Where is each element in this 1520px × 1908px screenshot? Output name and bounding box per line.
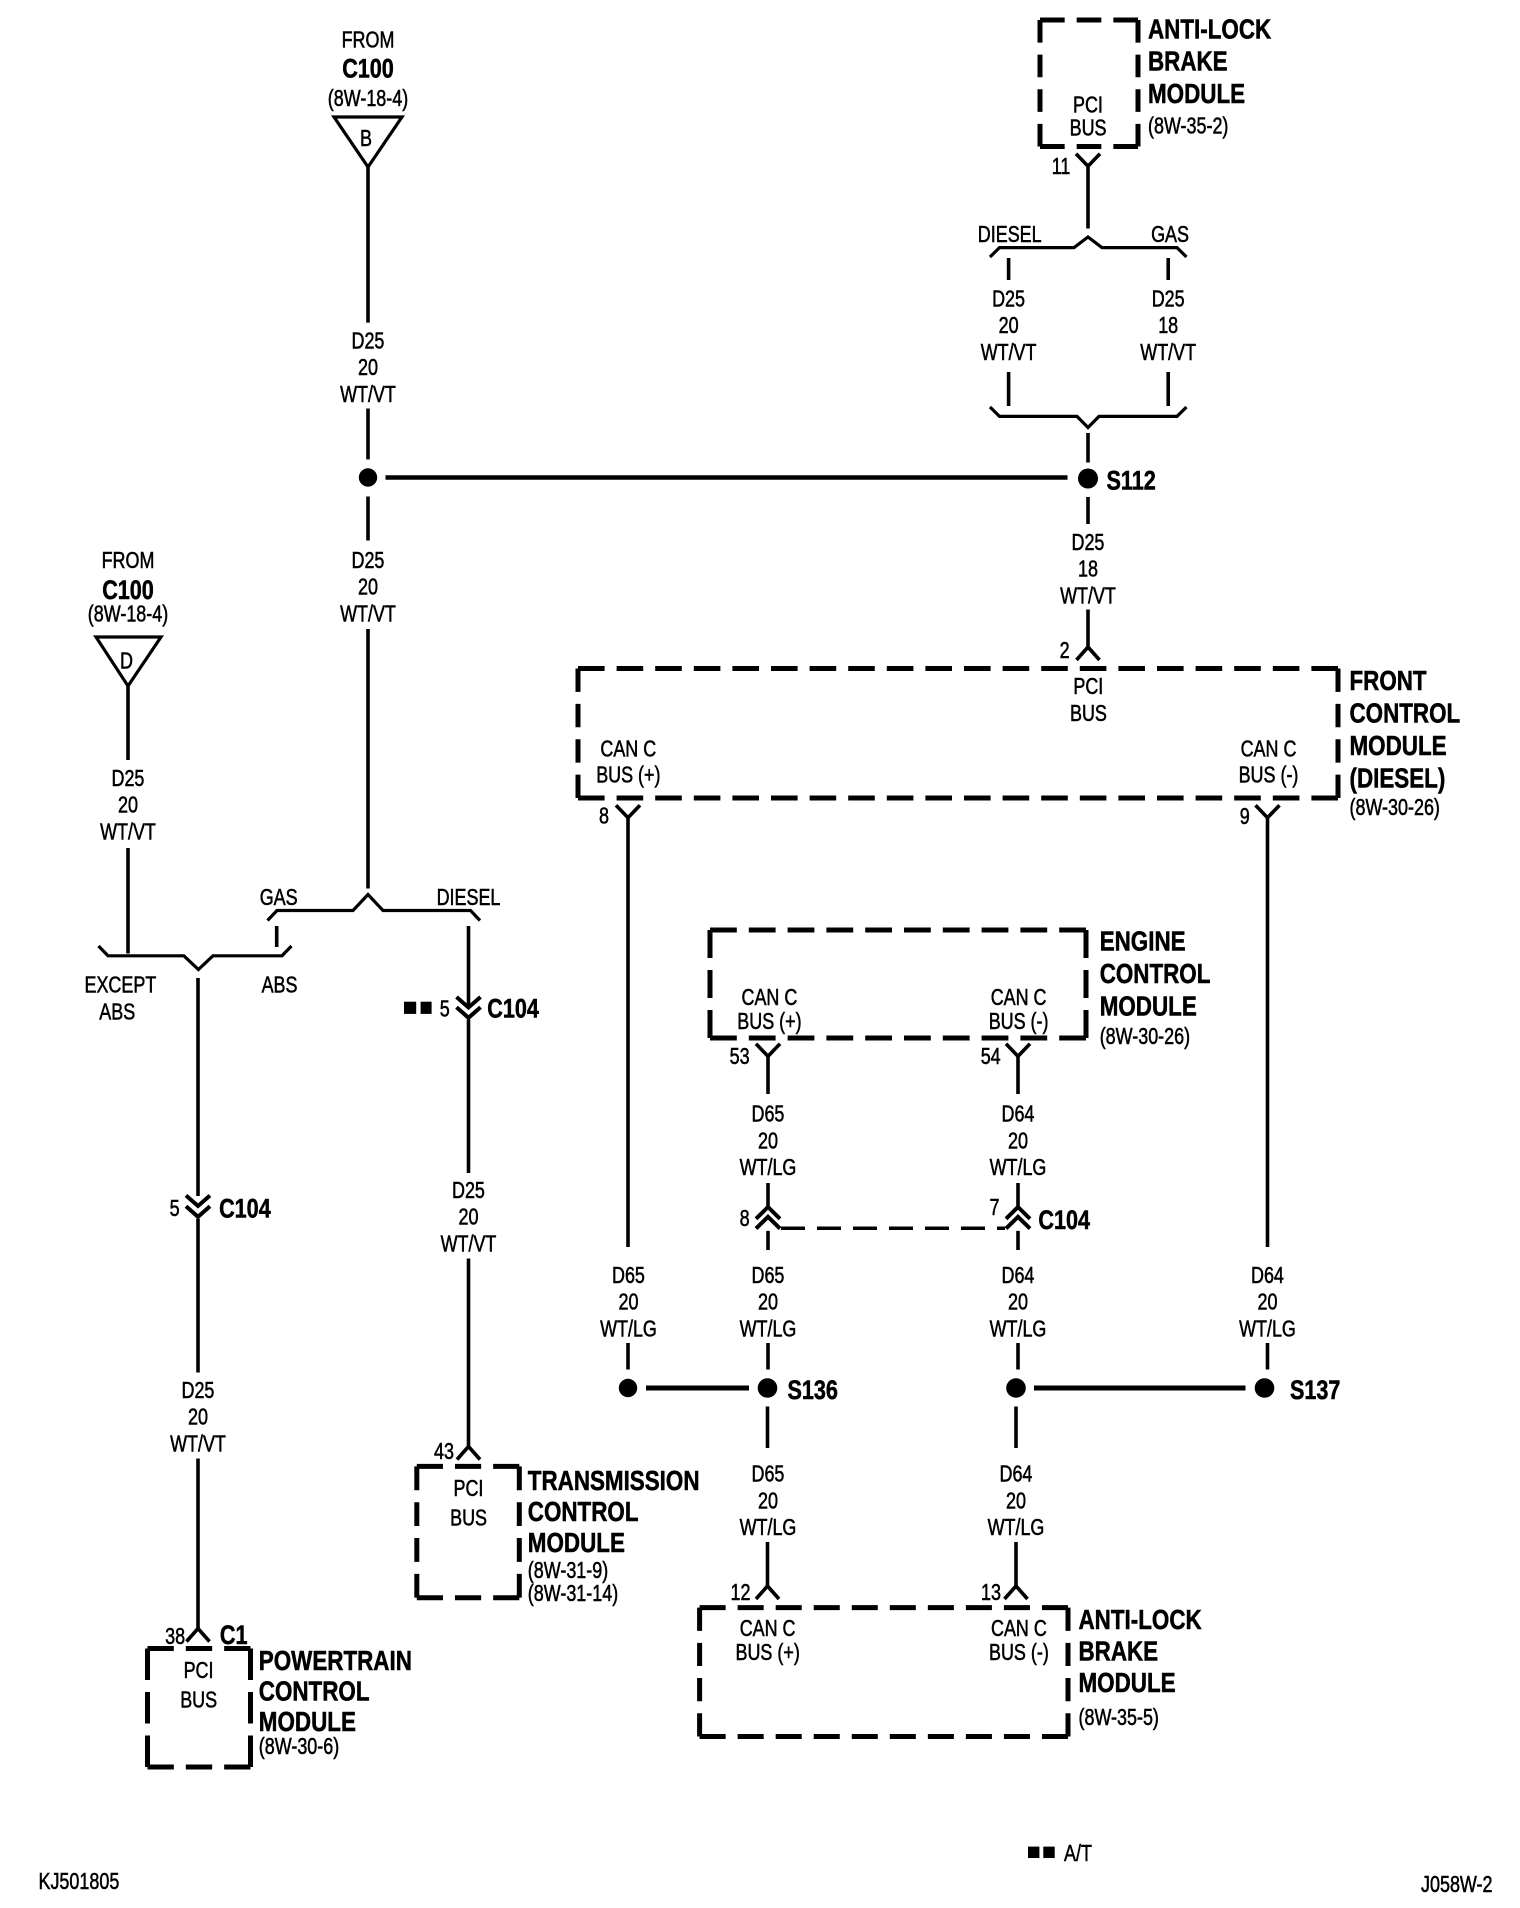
splice S136: [619, 1375, 838, 1405]
svg-text:D25: D25: [1152, 286, 1185, 312]
pin 43 of TCM: [434, 1438, 480, 1464]
svg-text:D25: D25: [112, 765, 145, 791]
svg-text:BUS (+): BUS (+): [737, 1008, 801, 1034]
wire: [766, 1343, 770, 1370]
svg-text:20: 20: [619, 1289, 639, 1315]
sheet id J058W-2: [1421, 1871, 1493, 1897]
merge brace into S112: [990, 407, 1187, 428]
svg-text:CONTROL: CONTROL: [1100, 958, 1211, 989]
svg-text:20: 20: [1008, 1289, 1028, 1315]
svg-text:13: 13: [981, 1579, 1001, 1605]
svg-text:20: 20: [758, 1487, 778, 1513]
wire: [766, 1183, 770, 1207]
svg-text:CONTROL: CONTROL: [1350, 698, 1461, 729]
svg-text:ANTI-LOCK: ANTI-LOCK: [1148, 14, 1271, 45]
svg-text:20: 20: [1258, 1289, 1278, 1315]
svg-text:BUS: BUS: [180, 1687, 217, 1713]
connector C100 reference triangle B (from 8W-18-4): [328, 27, 408, 168]
svg-text:C1: C1: [220, 1620, 248, 1650]
svg-text:(8W-35-5): (8W-35-5): [1079, 1704, 1159, 1730]
svg-text:MODULE: MODULE: [1079, 1667, 1176, 1698]
svg-text:CONTROL: CONTROL: [259, 1676, 370, 1707]
svg-text:18: 18: [1078, 556, 1098, 582]
wire: [1007, 372, 1011, 406]
branch label DIESEL: [437, 884, 501, 910]
svg-text:DIESEL: DIESEL: [978, 221, 1042, 247]
svg-text:20: 20: [1006, 1487, 1026, 1513]
svg-text:D64: D64: [1251, 1262, 1284, 1288]
svg-text:WT/VT: WT/VT: [1140, 339, 1196, 365]
svg-text:BRAKE: BRAKE: [1079, 1636, 1159, 1667]
svg-text:20: 20: [999, 312, 1019, 338]
svg-text:MODULE: MODULE: [1350, 730, 1447, 761]
svg-text:C100: C100: [342, 54, 394, 84]
svg-text:S112: S112: [1107, 466, 1156, 496]
svg-text:FROM: FROM: [102, 547, 155, 573]
svg-text:CAN C: CAN C: [991, 984, 1047, 1010]
splice S137: [1006, 1375, 1340, 1405]
wire: [196, 1219, 200, 1373]
legend A/T marker: [1028, 1840, 1092, 1866]
wire below S137: [1014, 1407, 1018, 1449]
svg-text:POWERTRAIN: POWERTRAIN: [259, 1645, 412, 1676]
svg-text:S137: S137: [1290, 1375, 1340, 1405]
svg-text:20: 20: [188, 1404, 208, 1430]
svg-text:D25: D25: [452, 1177, 485, 1203]
label D25 20 WT/VT (B column lower): [340, 547, 396, 626]
svg-text:J058W-2: J058W-2: [1421, 1871, 1493, 1897]
module TRANSMISSION CONTROL MODULE: [417, 1465, 700, 1606]
svg-text:MODULE: MODULE: [1148, 78, 1245, 109]
svg-text:WT/LG: WT/LG: [990, 1154, 1047, 1180]
svg-text:11: 11: [1052, 153, 1071, 179]
svg-text:C104: C104: [1038, 1205, 1090, 1235]
svg-text:WT/LG: WT/LG: [740, 1154, 797, 1180]
wire: [1166, 372, 1170, 406]
svg-text:D64: D64: [1002, 1262, 1035, 1288]
label D65 20 WT/LG (above S136): [740, 1262, 797, 1341]
svg-text:43: 43: [434, 1438, 454, 1464]
svg-text:D64: D64: [1002, 1101, 1035, 1127]
svg-text:WT/VT: WT/VT: [170, 1430, 226, 1456]
pin 13 of ABM (bottom): [981, 1579, 1028, 1605]
svg-text:D25: D25: [992, 286, 1025, 312]
wire junction-to-S112 horizontal: [386, 475, 1068, 480]
svg-text:5: 5: [170, 1195, 180, 1221]
sheet id KJ501805: [39, 1868, 120, 1894]
svg-text:WT/VT: WT/VT: [340, 600, 396, 626]
svg-text:5: 5: [440, 995, 450, 1021]
wire: [366, 409, 370, 460]
svg-text:(8W-30-26): (8W-30-26): [1100, 1023, 1190, 1049]
svg-text:(DIESEL): (DIESEL): [1350, 763, 1446, 794]
svg-text:KJ501805: KJ501805: [39, 1868, 120, 1894]
branch label EXCEPT ABS: [85, 972, 157, 1025]
svg-text:DIESEL: DIESEL: [437, 884, 501, 910]
split brace GAS/DIESEL: [268, 895, 481, 921]
label D25 20 WT/VT (D column): [100, 765, 156, 844]
module ENGINE CONTROL MODULE: [710, 926, 1210, 1050]
dashed A/T link between C104 pins: [781, 1227, 1005, 1231]
svg-text:ABS: ABS: [262, 972, 298, 998]
svg-text:20: 20: [358, 354, 378, 380]
wire to FCM pin 2: [1086, 610, 1090, 648]
svg-text:(8W-18-4): (8W-18-4): [88, 601, 168, 627]
svg-text:BUS (-): BUS (-): [989, 1639, 1049, 1665]
svg-text:CAN C: CAN C: [742, 984, 798, 1010]
svg-text:CAN C: CAN C: [1241, 736, 1297, 762]
label D64 20 WT/LG (below S137): [988, 1461, 1045, 1540]
svg-text:CONTROL: CONTROL: [528, 1496, 639, 1527]
wire to TCM pin 43: [467, 1259, 471, 1447]
wire: [1086, 433, 1090, 463]
svg-text:20: 20: [1008, 1127, 1028, 1153]
svg-text:WT/LG: WT/LG: [988, 1514, 1045, 1540]
wire down to GAS/DIESEL split: [366, 629, 370, 889]
svg-text:8: 8: [599, 803, 609, 829]
label D64 20 WT/LG (FCM pin9 column): [1239, 1262, 1296, 1341]
svg-text:WT/VT: WT/VT: [340, 381, 396, 407]
svg-text:CAN C: CAN C: [600, 736, 656, 762]
svg-text:ENGINE: ENGINE: [1100, 926, 1186, 957]
svg-text:BUS (-): BUS (-): [1239, 761, 1299, 787]
pin 2 of FCM: [1060, 637, 1100, 663]
svg-text:D25: D25: [352, 328, 385, 354]
svg-text:A/T: A/T: [1064, 1840, 1092, 1866]
svg-text:BRAKE: BRAKE: [1148, 46, 1228, 77]
svg-text:MODULE: MODULE: [1100, 991, 1197, 1022]
wire: [366, 497, 370, 541]
svg-text:(8W-31-14): (8W-31-14): [528, 1580, 618, 1606]
module ANTI-LOCK BRAKE MODULE (bottom): [700, 1604, 1202, 1737]
connector C100 reference triangle D (from 8W-18-4): [88, 547, 168, 686]
wire below S136: [766, 1407, 770, 1449]
junction dot B column: [359, 468, 377, 486]
wire merge to C104: [196, 978, 200, 1196]
module POWERTRAIN CONTROL MODULE: [148, 1645, 412, 1767]
wire to ABM pin 12: [766, 1542, 770, 1586]
svg-text:D65: D65: [752, 1262, 785, 1288]
svg-text:EXCEPT: EXCEPT: [85, 972, 157, 998]
splice S112: [1078, 466, 1156, 496]
svg-text:WT/VT: WT/VT: [100, 818, 156, 844]
svg-text:8: 8: [740, 1205, 750, 1231]
wire to PCM pin 38: [196, 1459, 200, 1629]
wire: [126, 848, 130, 954]
svg-text:54: 54: [981, 1043, 1001, 1069]
label D25 18 WT/VT (top gas branch): [1140, 286, 1196, 365]
svg-text:7: 7: [990, 1194, 1000, 1220]
svg-text:53: 53: [730, 1043, 750, 1069]
label D64 20 WT/LG (above S137): [990, 1262, 1047, 1341]
wire D25 from triangle B down: [366, 167, 370, 323]
svg-text:WT/VT: WT/VT: [441, 1230, 497, 1256]
svg-text:WT/VT: WT/VT: [981, 339, 1037, 365]
pin 8 of FCM: [599, 803, 640, 829]
wire pin11 down: [1086, 166, 1090, 228]
connector C104 pin 8: [740, 1205, 780, 1231]
svg-text:FROM: FROM: [342, 27, 395, 53]
svg-text:(8W-35-2): (8W-35-2): [1148, 113, 1228, 139]
svg-text:PCI: PCI: [454, 1475, 484, 1501]
svg-text:20: 20: [758, 1127, 778, 1153]
wire: [766, 1056, 770, 1094]
module ANTI-LOCK BRAKE MODULE (top): [1040, 14, 1271, 147]
label D64 20 WT/LG (pin54): [990, 1101, 1047, 1180]
wire FCM pin8 down: [626, 818, 630, 1247]
wire: [1016, 1183, 1020, 1207]
svg-text:D64: D64: [1000, 1461, 1033, 1487]
svg-text:MODULE: MODULE: [528, 1527, 625, 1558]
svg-text:(8W-30-26): (8W-30-26): [1350, 794, 1440, 820]
svg-text:BUS: BUS: [450, 1505, 487, 1531]
svg-text:18: 18: [1158, 312, 1178, 338]
svg-text:20: 20: [118, 792, 138, 818]
label D25 20 WT/VT (TCM column): [441, 1177, 497, 1256]
svg-text:GAS: GAS: [1151, 221, 1189, 247]
wire: [626, 1343, 630, 1370]
pin 11 of ABM: [1052, 153, 1100, 179]
wire GAS stub: [275, 926, 279, 947]
svg-text:WT/LG: WT/LG: [740, 1514, 797, 1540]
label D25 20 WT/VT (top diesel branch): [981, 286, 1037, 365]
svg-text:D65: D65: [752, 1461, 785, 1487]
svg-text:WT/VT: WT/VT: [1060, 582, 1116, 608]
pin 9 of FCM: [1240, 803, 1280, 829]
pin 38 / C1 of PCM: [165, 1620, 247, 1650]
wire DIESEL stub: [467, 926, 471, 1007]
svg-text:C104: C104: [487, 994, 539, 1024]
pin 12 of ABM (bottom): [731, 1579, 780, 1605]
svg-text:CAN C: CAN C: [740, 1615, 796, 1641]
wire: [1016, 1231, 1020, 1250]
connector C104 pin 7: [990, 1194, 1091, 1235]
svg-text:C104: C104: [219, 1194, 271, 1224]
svg-text:20: 20: [459, 1204, 479, 1230]
merge brace EXCEPT-ABS/ABS: [99, 946, 292, 970]
svg-text:TRANSMISSION: TRANSMISSION: [528, 1465, 700, 1496]
svg-text:38: 38: [165, 1623, 185, 1649]
svg-text:20: 20: [358, 574, 378, 600]
svg-text:D65: D65: [752, 1101, 785, 1127]
branch label ABS: [262, 972, 298, 998]
label D25 18 WT/VT (S112 column): [1060, 529, 1116, 608]
svg-text:B: B: [360, 125, 372, 151]
svg-text:20: 20: [758, 1289, 778, 1315]
wire below S112: [1086, 497, 1090, 524]
svg-text:D25: D25: [182, 1377, 215, 1403]
svg-text:GAS: GAS: [260, 884, 298, 910]
wire: [1016, 1056, 1020, 1094]
svg-text:BUS: BUS: [1070, 115, 1107, 141]
connector C104 pin 5 (diesel column) with A/T marker: [404, 994, 539, 1024]
wire: [467, 1020, 471, 1174]
label D65 20 WT/LG (FCM pin8 column): [600, 1262, 657, 1341]
svg-text:CAN C: CAN C: [991, 1615, 1047, 1641]
module FRONT CONTROL MODULE (DIESEL): [578, 665, 1460, 820]
svg-text:9: 9: [1240, 803, 1250, 829]
wire: [1016, 1343, 1020, 1370]
branch label GAS (top): [1151, 221, 1189, 247]
svg-text:D65: D65: [612, 1262, 645, 1288]
split brace DIESEL/GAS (top): [990, 237, 1187, 257]
svg-text:S136: S136: [788, 1375, 838, 1405]
svg-text:D25: D25: [352, 547, 385, 573]
svg-text:BUS (+): BUS (+): [736, 1639, 800, 1665]
svg-text:PCI: PCI: [184, 1657, 214, 1683]
wire from triangle D: [126, 686, 130, 760]
svg-text:BUS: BUS: [1070, 700, 1107, 726]
svg-text:ANTI-LOCK: ANTI-LOCK: [1079, 1604, 1202, 1635]
svg-text:2: 2: [1060, 637, 1070, 663]
wire to ABM pin 13: [1014, 1542, 1018, 1586]
svg-text:WT/LG: WT/LG: [600, 1315, 657, 1341]
svg-text:12: 12: [731, 1579, 751, 1605]
branch label GAS: [260, 884, 298, 910]
connector C104 pin 5 (left): [170, 1194, 271, 1224]
pin 53 of ECM: [730, 1043, 780, 1069]
wire: [1266, 1343, 1270, 1370]
svg-text:D25: D25: [1072, 529, 1105, 555]
svg-text:D: D: [120, 648, 133, 674]
label D25 20 WT/VT (PCM column): [170, 1377, 226, 1456]
svg-text:ABS: ABS: [99, 998, 135, 1024]
svg-text:WT/LG: WT/LG: [740, 1315, 797, 1341]
svg-text:WT/LG: WT/LG: [1239, 1315, 1296, 1341]
wire: [766, 1231, 770, 1250]
svg-text:PCI: PCI: [1073, 673, 1103, 699]
svg-text:BUS (-): BUS (-): [989, 1008, 1049, 1034]
wire diesel stub: [1007, 258, 1011, 280]
svg-text:(8W-18-4): (8W-18-4): [328, 85, 408, 111]
svg-text:FRONT: FRONT: [1350, 665, 1427, 696]
svg-text:WT/LG: WT/LG: [990, 1315, 1047, 1341]
wire FCM pin9 down: [1266, 818, 1270, 1247]
branch label DIESEL (top): [978, 221, 1042, 247]
label D65 20 WT/LG (pin53): [740, 1101, 797, 1180]
label D65 20 WT/LG (below S136): [740, 1461, 797, 1540]
pin 54 of ECM: [981, 1043, 1030, 1069]
wire gas stub: [1166, 258, 1170, 280]
label D25 20 WT/VT (B column upper): [340, 328, 396, 407]
svg-text:(8W-30-6): (8W-30-6): [259, 1733, 339, 1759]
svg-text:BUS (+): BUS (+): [596, 761, 660, 787]
